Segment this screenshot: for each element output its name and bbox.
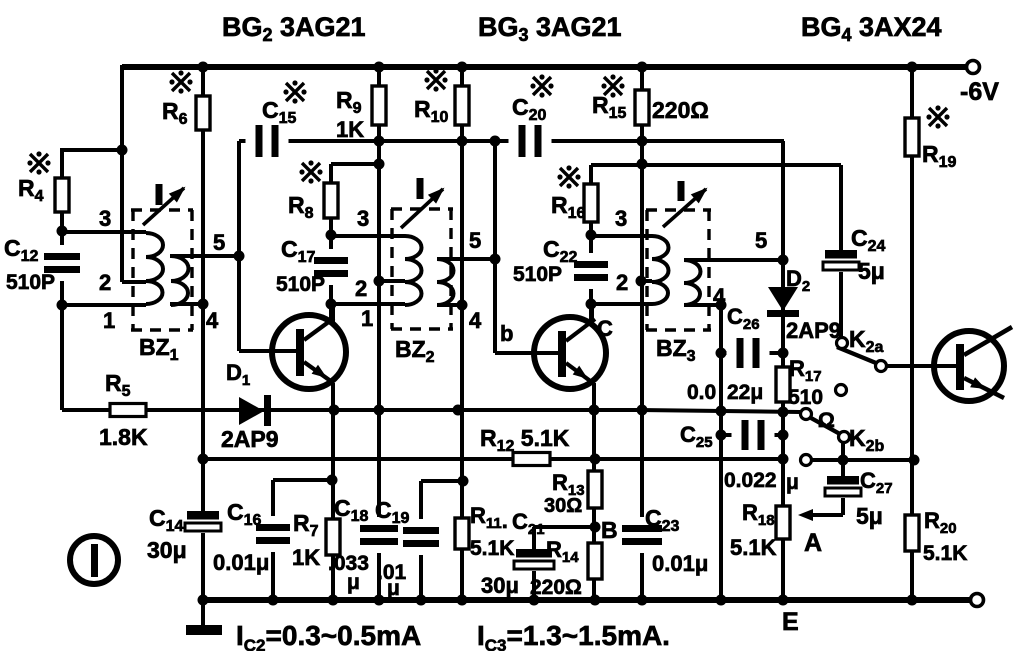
svg-text:C: C [597,316,613,341]
svg-text:1.8K: 1.8K [99,424,148,450]
svg-text:R12 5.1K: R12 5.1K [480,425,570,455]
svg-text:3: 3 [99,206,111,231]
svg-text:5.1K: 5.1K [923,542,967,565]
svg-text:1K: 1K [336,117,364,142]
svg-text:1: 1 [103,308,115,333]
svg-text:5μ: 5μ [858,258,885,284]
svg-text:5.1K: 5.1K [730,535,777,560]
svg-text:2: 2 [99,270,111,295]
svg-text:220Ω: 220Ω [652,97,709,123]
svg-text:Ω: Ω [818,409,835,432]
svg-text:BG2 3AG21: BG2 3AG21 [222,12,366,45]
svg-text:2AP9: 2AP9 [221,426,279,452]
svg-text:5: 5 [213,230,225,255]
svg-text:30μ: 30μ [147,537,187,563]
svg-text:0.022: 0.022 [724,469,777,492]
svg-text:30Ω: 30Ω [544,495,582,517]
svg-text:2: 2 [355,276,367,301]
svg-text:3: 3 [615,206,627,231]
svg-text:510P: 510P [276,273,325,296]
svg-text:0.01μ: 0.01μ [652,551,708,576]
svg-text:5.1K: 5.1K [470,537,514,560]
svg-text:3: 3 [357,206,369,231]
svg-text:E: E [782,608,799,636]
svg-text:μ: μ [786,471,799,494]
svg-text:-6V: -6V [960,78,999,106]
svg-text:4: 4 [469,308,482,333]
svg-text:2: 2 [616,270,628,295]
svg-text:μ: μ [347,571,360,594]
svg-text:4: 4 [206,308,219,333]
svg-text:A: A [804,529,822,557]
svg-text:510: 510 [788,386,823,409]
svg-text:BG3 3AG21: BG3 3AG21 [478,12,622,45]
svg-text:220Ω: 220Ω [530,576,582,599]
svg-text:4: 4 [713,284,726,309]
svg-text:μ: μ [387,577,400,600]
svg-text:b: b [500,321,513,346]
svg-text:30μ: 30μ [481,573,519,598]
svg-text:0.0: 0.0 [687,381,716,404]
svg-text:0.01μ: 0.01μ [213,550,269,575]
svg-text:510P: 510P [6,271,55,294]
svg-text:B: B [601,517,618,543]
svg-text:BG4 3AX24: BG4 3AX24 [801,12,942,45]
svg-text:510P: 510P [513,263,562,286]
svg-text:5μ: 5μ [856,503,883,529]
svg-text:2AP9: 2AP9 [786,318,841,343]
svg-text:22μ: 22μ [727,381,763,404]
svg-text:5: 5 [469,228,481,253]
svg-text:1: 1 [361,306,373,331]
svg-text:IC3=1.3~1.5mA.: IC3=1.3~1.5mA. [477,620,670,651]
svg-text:1K: 1K [292,545,320,570]
svg-text:5: 5 [755,228,767,253]
